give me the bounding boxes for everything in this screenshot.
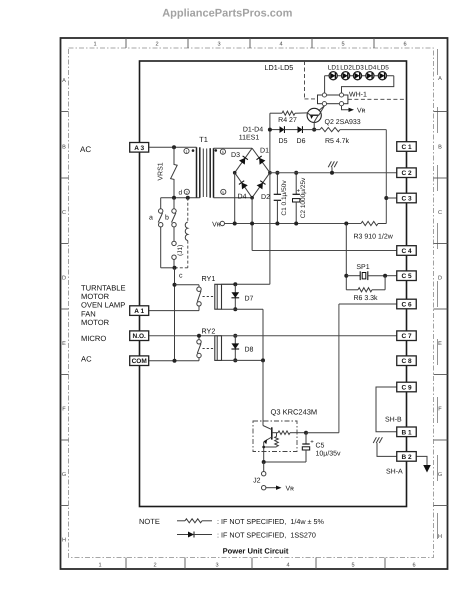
wire RY1 coil top rail bbox=[222, 283, 236, 285]
svg-text:4: 4 bbox=[286, 563, 289, 569]
svg-text:D8: D8 bbox=[245, 347, 254, 354]
wire B2 to earth arrow bbox=[416, 456, 428, 465]
svg-text:C: C bbox=[62, 210, 66, 216]
node SP1 left bbox=[344, 274, 348, 278]
svg-text:D6: D6 bbox=[297, 138, 306, 145]
jumper J2 bbox=[263, 462, 265, 472]
node D7 bottom bbox=[233, 307, 237, 311]
svg-text:N.O.: N.O. bbox=[133, 333, 147, 340]
node emitter rail J2 tap bbox=[262, 460, 266, 464]
svg-text:R6 3.3k: R6 3.3k bbox=[353, 294, 378, 302]
node bridge left corner bbox=[233, 171, 237, 175]
wire T1 secondary bottom to bridge bottom corner bbox=[214, 197, 253, 199]
svg-text:H: H bbox=[438, 534, 442, 540]
switch a bbox=[160, 198, 162, 209]
wire C4 line to connector C4 bbox=[252, 250, 397, 252]
svg-text:NOTE: NOTE bbox=[139, 517, 160, 526]
PCB outline rectangle bbox=[140, 61, 407, 507]
svg-text:D: D bbox=[438, 276, 442, 282]
wire bridge plus rail to connector C2 bbox=[270, 172, 397, 174]
svg-text:Vʀ: Vʀ bbox=[286, 485, 295, 492]
svg-text:AC: AC bbox=[80, 145, 91, 154]
node bridge left on VR rail bbox=[233, 222, 237, 226]
svg-text:C 9: C 9 bbox=[401, 385, 412, 392]
note resistor sample bbox=[177, 520, 185, 522]
wire bridge bottom corner down through VR rail to C4 line bbox=[251, 198, 253, 251]
wire node c down to COM rail bbox=[174, 268, 176, 361]
svg-text:3: 3 bbox=[217, 42, 220, 48]
WH-1 pin top left bbox=[322, 93, 326, 97]
Q3 base resistor bbox=[272, 432, 278, 434]
svg-text:Vʀ: Vʀ bbox=[212, 221, 221, 228]
svg-text:COM: COM bbox=[132, 358, 147, 365]
connector C9 bbox=[397, 382, 417, 392]
svg-text:LD4: LD4 bbox=[365, 64, 377, 71]
buzzer SP1 bbox=[346, 275, 360, 277]
svg-text:F: F bbox=[62, 407, 66, 413]
svg-text:RY2: RY2 bbox=[202, 327, 216, 336]
capacitor C1 0.1u/50v bbox=[276, 173, 278, 195]
connector C4 bbox=[397, 246, 417, 256]
svg-text:WH-1: WH-1 bbox=[349, 91, 367, 98]
terminal VR circle bbox=[220, 221, 224, 225]
svg-text:B: B bbox=[62, 145, 66, 151]
node C1 bottom bbox=[275, 222, 279, 226]
outer border frame bbox=[61, 38, 448, 569]
svg-text:D5: D5 bbox=[279, 138, 288, 145]
bridge arm diode D3 bbox=[235, 148, 252, 173]
switch b bbox=[173, 198, 175, 209]
T1 phasing dot secondary bbox=[215, 149, 218, 152]
svg-text:E: E bbox=[438, 341, 442, 347]
node D7 top bbox=[233, 282, 237, 286]
connector A3 bbox=[130, 143, 149, 153]
node C2 top bbox=[294, 171, 298, 175]
svg-text:R5 4.7k: R5 4.7k bbox=[325, 137, 350, 145]
node bridge bottom on VR rail bbox=[250, 222, 254, 226]
T1 phasing dot primary bbox=[192, 149, 195, 152]
svg-text:C 1: C 1 bbox=[401, 144, 412, 151]
wire LED supply rail to R4 bbox=[270, 112, 282, 114]
connector C6 bbox=[397, 299, 417, 309]
svg-text:LD3: LD3 bbox=[352, 64, 364, 71]
svg-text:C 7: C 7 bbox=[401, 333, 412, 340]
svg-text:C 8: C 8 bbox=[401, 358, 412, 365]
svg-text:1: 1 bbox=[98, 563, 101, 569]
frame zone ticks top bbox=[125, 38, 127, 48]
transistor Q2 2SA933 bbox=[307, 108, 321, 122]
inner border dashed frame bbox=[69, 48, 434, 558]
resistor R6 3.3k parallel loop bbox=[346, 289, 358, 291]
LED board dashed boundary bbox=[304, 61, 306, 99]
svg-text:C 3: C 3 bbox=[401, 196, 412, 203]
svg-text:6: 6 bbox=[412, 563, 415, 569]
svg-text:11ES1: 11ES1 bbox=[239, 135, 260, 142]
node base node to C6 and C5 bbox=[304, 431, 308, 435]
svg-text:Q2 2SA933: Q2 2SA933 bbox=[325, 119, 361, 126]
svg-text:Q3 KRC243M: Q3 KRC243M bbox=[271, 408, 318, 417]
node c line end on COM rail bbox=[173, 359, 177, 363]
wire base node to C6 riser bbox=[306, 432, 339, 434]
wire C9 to B1 shunt bracket SH-B bbox=[376, 387, 399, 432]
node R3 left on VR rail bbox=[344, 222, 348, 226]
svg-text:R4 27: R4 27 bbox=[278, 117, 297, 124]
wire NO to C7 rail bbox=[149, 335, 397, 337]
dashed jumper wire branch with coil bbox=[187, 198, 189, 222]
relay RY1 contact bbox=[197, 287, 201, 291]
wire T1 primary bottom rail bbox=[161, 197, 200, 199]
svg-text:D1-D4: D1-D4 bbox=[243, 127, 263, 134]
node Q2 collector on D5 rail bbox=[312, 128, 316, 132]
svg-text:T1: T1 bbox=[199, 135, 208, 144]
node LED rail tee bbox=[268, 128, 272, 132]
svg-text:1: 1 bbox=[93, 42, 96, 48]
wire bridge right corner up to LED supply rail bbox=[269, 113, 271, 173]
wire VR node down to SP1 bbox=[345, 224, 347, 290]
relay RY2 contact bbox=[198, 336, 200, 340]
node bridge right corner bbox=[268, 171, 272, 175]
LED LD5 bbox=[378, 72, 386, 80]
chassis ground on C2 rail bbox=[331, 167, 333, 173]
svg-text:C 5: C 5 bbox=[401, 273, 412, 280]
svg-text:LD5: LD5 bbox=[377, 64, 389, 71]
resistor R3 910 1/2w bbox=[361, 221, 378, 225]
svg-text:D7: D7 bbox=[245, 295, 254, 302]
svg-text:LD2: LD2 bbox=[340, 64, 352, 71]
svg-text:AppliancePartsPros.com: AppliancePartsPros.com bbox=[162, 8, 292, 20]
svg-text:RY1: RY1 bbox=[202, 274, 216, 283]
wire RY1 bottom rail bbox=[222, 308, 264, 310]
connector C1 bbox=[397, 142, 417, 152]
LED LD3 bbox=[353, 72, 361, 80]
J2 arrow to VR bbox=[266, 487, 277, 489]
svg-text:: IF NOT SPECIFIED, 1/4w ± 5%: : IF NOT SPECIFIED, 1/4w ± 5% bbox=[217, 517, 324, 526]
LED LD4 bbox=[366, 72, 374, 80]
node d junction VRS1 bottom bbox=[172, 196, 176, 200]
node J1 branch junction bbox=[186, 196, 190, 200]
svg-text:SP1: SP1 bbox=[356, 264, 369, 271]
wire switch a bottom to node c bbox=[161, 267, 175, 269]
svg-text:2: 2 bbox=[155, 42, 158, 48]
svg-text:SH-A: SH-A bbox=[386, 469, 403, 476]
node bridge bottom corner bbox=[250, 196, 254, 200]
frame fold chain line right bbox=[437, 49, 439, 558]
flyback diode D8 bbox=[234, 336, 236, 361]
wire R5 to right vertical bbox=[340, 129, 386, 131]
svg-text:SH-B: SH-B bbox=[385, 417, 402, 424]
Q3 base-emitter resistor bbox=[276, 433, 278, 437]
bridge arm diode D1 bbox=[252, 148, 270, 173]
RY2 mechanical link dashes bbox=[203, 348, 214, 350]
wire relay supply rail to RY1 top bbox=[222, 283, 270, 285]
connector NO bbox=[130, 331, 149, 341]
WH-1 pin bottom right bbox=[339, 102, 343, 106]
svg-text:B: B bbox=[438, 145, 442, 151]
wire LED chain rail bbox=[325, 75, 394, 77]
svg-text:3: 3 bbox=[215, 563, 218, 569]
svg-text:d: d bbox=[179, 190, 183, 197]
svg-text:E: E bbox=[62, 341, 66, 347]
svg-text:AC: AC bbox=[81, 355, 92, 364]
svg-text:C 2: C 2 bbox=[401, 170, 412, 177]
svg-text:MICRO: MICRO bbox=[81, 334, 106, 343]
diode D6 bbox=[298, 126, 303, 133]
svg-text:R3 910 1/2w: R3 910 1/2w bbox=[354, 232, 394, 240]
connector B1 bbox=[397, 427, 417, 437]
node RY1 contact feed on c line bbox=[173, 283, 177, 287]
svg-text:D: D bbox=[62, 276, 66, 282]
node D8 top on NO rail bbox=[233, 334, 237, 338]
RY1 mechanical link dashes bbox=[203, 296, 214, 298]
node relay return junction bbox=[261, 358, 265, 362]
node RY2 contact on NO rail bbox=[197, 334, 201, 338]
wire WH-1 to VR arrow bbox=[342, 106, 350, 110]
WH-1 pin top right bbox=[339, 93, 343, 97]
svg-text:C 6: C 6 bbox=[401, 302, 412, 309]
svg-text:D1: D1 bbox=[260, 148, 269, 155]
svg-text:10μ/35v: 10μ/35v bbox=[316, 449, 342, 457]
wire right vertical R5 to R3 bbox=[385, 130, 387, 224]
svg-text:5: 5 bbox=[341, 42, 344, 48]
svg-text:J2: J2 bbox=[253, 477, 261, 484]
wire RY2 bottom rail bbox=[222, 359, 264, 361]
wire D5 D6 rail bbox=[270, 129, 280, 131]
svg-text:A 1: A 1 bbox=[134, 308, 144, 315]
T1 primary terminal 2 circle bbox=[184, 189, 189, 194]
connector C3 bbox=[397, 193, 417, 203]
node junction A3 rail / VRS1 top bbox=[172, 145, 176, 149]
WH-1 pin bottom left bbox=[322, 102, 326, 106]
svg-text:B 2: B 2 bbox=[401, 454, 412, 461]
svg-text:D4: D4 bbox=[238, 194, 247, 201]
wire A3 to T1 primary top bbox=[149, 146, 196, 148]
wire T1 secondary top to bridge top corner bbox=[214, 147, 253, 149]
chassis ground at B2 bbox=[376, 443, 378, 449]
LED LD2 bbox=[342, 72, 350, 80]
svg-text:C1 0.1μ/50v: C1 0.1μ/50v bbox=[281, 180, 288, 216]
wire A1 to RY1 contact bbox=[149, 310, 199, 312]
varistor VRS1 bbox=[171, 147, 178, 197]
svg-text:F: F bbox=[438, 407, 442, 413]
svg-text:H: H bbox=[62, 538, 66, 544]
relay RY2 coil bbox=[215, 336, 222, 361]
svg-text:D3: D3 bbox=[231, 152, 240, 159]
svg-text:2: 2 bbox=[153, 563, 156, 569]
svg-text:6: 6 bbox=[403, 42, 406, 48]
wire bridge right corner down to relay supply rail bbox=[269, 173, 271, 285]
node C1 top bbox=[275, 171, 279, 175]
svg-text:C5: C5 bbox=[316, 443, 325, 450]
svg-text:C 4: C 4 bbox=[401, 248, 412, 255]
wire SP1 to connector C5 bbox=[385, 275, 397, 277]
node D8 bottom bbox=[233, 358, 237, 362]
wire R4 to Q2 bbox=[295, 112, 307, 114]
jumper J1 terminals bbox=[173, 227, 175, 241]
bridge arm diode D4 bbox=[235, 173, 252, 198]
resistor R5 4.7k bbox=[320, 128, 340, 132]
connector C8 bbox=[397, 356, 417, 366]
node c bbox=[173, 266, 177, 270]
wire Q3 emitter rail bbox=[264, 461, 306, 463]
node C2 bottom bbox=[294, 222, 298, 226]
connector COM bbox=[130, 356, 149, 366]
relay RY1 coil bbox=[215, 284, 222, 309]
svg-text:G: G bbox=[438, 472, 442, 478]
diode D5 bbox=[280, 126, 285, 133]
connector C5 bbox=[397, 271, 417, 281]
wire chassis ground to B2 bbox=[377, 449, 399, 457]
node C3 tap bbox=[384, 196, 388, 200]
earth arrow bbox=[423, 465, 431, 473]
svg-text:+: + bbox=[310, 439, 314, 445]
T1 secondary terminal circle top bbox=[220, 149, 225, 154]
node Q3 emitter junction bbox=[262, 446, 265, 449]
node chassis ground stub bbox=[330, 171, 334, 175]
bridge arm diode D2 bbox=[252, 173, 270, 198]
svg-text:MOTOR: MOTOR bbox=[81, 318, 110, 327]
connector A1 bbox=[130, 306, 149, 316]
node SP1 right bbox=[383, 274, 387, 278]
svg-text:4: 4 bbox=[279, 42, 282, 48]
svg-text:A: A bbox=[438, 76, 442, 82]
wire relay return down to Q3 collector bbox=[262, 360, 264, 425]
note diode sample bbox=[177, 534, 188, 536]
transistor Q3 bbox=[271, 427, 273, 439]
svg-text:c: c bbox=[179, 273, 183, 280]
frame zone ticks right bbox=[434, 111, 448, 113]
svg-text:A 3: A 3 bbox=[134, 145, 144, 152]
capacitor C5 10u/35v bbox=[305, 433, 307, 444]
connector C2 bbox=[397, 168, 417, 178]
wire COM rail bbox=[149, 360, 199, 362]
capacitor C2 1000u/25v electrolytic bbox=[295, 173, 297, 195]
wire VR rail bbox=[225, 223, 362, 225]
wire to connector C3 bbox=[386, 197, 396, 199]
svg-text:b: b bbox=[165, 214, 169, 222]
wire c line to RY1 common contact bbox=[175, 284, 200, 286]
wire LED chain left end down to WH-1 bbox=[324, 76, 326, 95]
svg-text:LD1: LD1 bbox=[328, 64, 340, 71]
svg-text:G: G bbox=[62, 472, 66, 478]
svg-text:LD1-LD5: LD1-LD5 bbox=[265, 63, 294, 72]
connector B2 bbox=[397, 452, 417, 462]
wire WH-1 to Q2 bbox=[319, 106, 325, 111]
wire bridge left corner down to VR rail bbox=[234, 173, 236, 224]
frame zone ticks left bbox=[61, 111, 69, 113]
svg-text:: IF NOT SPECIFIED, 1SS270: : IF NOT SPECIFIED, 1SS270 bbox=[217, 531, 316, 540]
wire C6 rail bbox=[339, 303, 397, 305]
wire RY1 bottom down to RY2 bottom bbox=[262, 309, 264, 360]
Q3 dash-dot box bbox=[253, 421, 297, 452]
svg-text:VRS1: VRS1 bbox=[157, 162, 164, 180]
svg-text:Vʀ: Vʀ bbox=[357, 108, 366, 115]
svg-text:a: a bbox=[149, 215, 153, 222]
LED LD1 bbox=[329, 72, 337, 80]
T1 secondary terminal circle bottom bbox=[221, 189, 226, 194]
svg-text:A: A bbox=[62, 78, 66, 84]
svg-text:B 1: B 1 bbox=[401, 429, 412, 436]
wire LED chain right end fold down to WH-1 bbox=[342, 76, 394, 95]
svg-text:D2: D2 bbox=[261, 194, 270, 201]
svg-text:C: C bbox=[438, 210, 442, 216]
svg-text:Power Unit Circuit: Power Unit Circuit bbox=[223, 547, 289, 556]
svg-text:5: 5 bbox=[351, 563, 354, 569]
connector C7 bbox=[397, 331, 417, 341]
svg-text:(J1): (J1) bbox=[177, 245, 184, 256]
svg-text:C2 1000μ/25v: C2 1000μ/25v bbox=[300, 177, 307, 218]
connector WH-1 body bbox=[318, 95, 348, 104]
frame zone ticks bottom bbox=[125, 558, 127, 570]
resistor R4 27 bbox=[282, 111, 295, 115]
T1 primary terminal 1 circle bbox=[184, 148, 189, 153]
flyback diode D7 bbox=[234, 284, 236, 309]
